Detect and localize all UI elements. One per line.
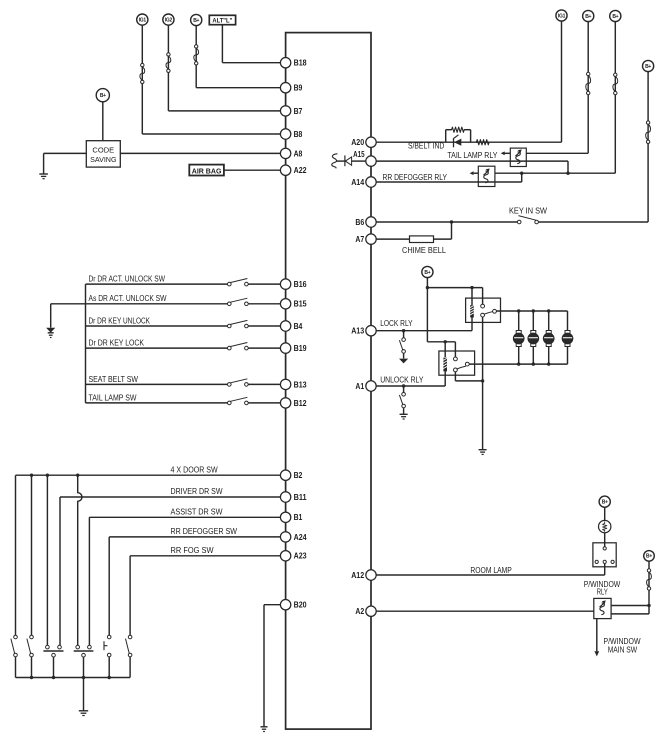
svg-text:ALT"L": ALT"L" [212,18,232,24]
svg-text:A7: A7 [355,235,364,244]
svg-text:As DR ACT. UNLOCK SW: As DR ACT. UNLOCK SW [89,294,167,303]
svg-text:A2: A2 [355,607,364,616]
svg-text:TAIL LAMP RLY: TAIL LAMP RLY [447,151,498,160]
svg-text:B1: B1 [294,513,303,522]
svg-text:B16: B16 [294,280,307,289]
svg-text:A12: A12 [351,571,364,580]
svg-text:B+: B+ [585,14,591,20]
svg-text:ASSIST DR SW: ASSIST DR SW [171,508,223,517]
svg-text:AIR BAG: AIR BAG [192,166,222,175]
svg-text:B15: B15 [294,300,307,309]
svg-text:A24: A24 [294,533,307,542]
svg-text:IG1: IG1 [139,17,147,23]
svg-text:RR DEFOGGER RLY: RR DEFOGGER RLY [383,173,448,182]
svg-text:A1: A1 [355,382,364,391]
svg-text:Dr DR ACT. UNLOCK SW: Dr DR ACT. UNLOCK SW [89,275,166,284]
svg-text:B19: B19 [294,344,307,353]
svg-text:A20: A20 [351,138,364,147]
svg-text:B8: B8 [294,130,303,139]
svg-text:SAVING: SAVING [90,155,117,164]
svg-text:A22: A22 [294,166,307,175]
svg-text:KEY IN SW: KEY IN SW [509,206,547,215]
svg-text:B+: B+ [100,93,106,99]
svg-text:A13: A13 [351,327,364,336]
svg-text:4 X DOOR SW: 4 X DOOR SW [171,465,219,474]
svg-text:B+: B+ [424,270,430,276]
svg-text:B11: B11 [294,493,308,502]
svg-text:B13: B13 [294,380,307,389]
svg-text:ROOM LAMP: ROOM LAMP [470,566,511,575]
svg-text:B+: B+ [646,554,652,560]
svg-text:A15: A15 [353,150,365,159]
svg-text:Dr DR KEY LOCK: Dr DR KEY LOCK [89,339,145,348]
svg-text:DRIVER DR SW: DRIVER DR SW [171,487,223,496]
svg-text:B7: B7 [294,107,303,116]
svg-text:RLY: RLY [597,588,608,597]
svg-text:B4: B4 [294,322,303,331]
svg-text:UNLOCK RLY: UNLOCK RLY [380,375,424,384]
svg-text:IG2: IG2 [165,17,173,23]
svg-text:TAIL LAMP SW: TAIL LAMP SW [89,393,137,402]
svg-text:IG1: IG1 [558,13,566,19]
svg-text:SEAT BELT SW: SEAT BELT SW [89,375,139,384]
svg-text:B20: B20 [294,601,307,610]
svg-text:A14: A14 [351,178,364,187]
svg-text:LOCK RLY: LOCK RLY [380,319,413,328]
svg-text:MAIN SW: MAIN SW [608,646,638,655]
svg-text:A23: A23 [294,552,307,561]
svg-text:RR FOG SW: RR FOG SW [171,546,214,555]
svg-text:CODE: CODE [92,146,114,155]
svg-text:B+: B+ [645,64,651,70]
svg-text:RR DEFOGGER SW: RR DEFOGGER SW [171,527,238,536]
svg-text:B2: B2 [294,471,303,480]
svg-text:B+: B+ [602,500,608,506]
svg-text:B18: B18 [294,59,307,68]
svg-text:B+: B+ [612,14,618,20]
svg-text:B+: B+ [193,18,199,24]
svg-text:CHIME BELL: CHIME BELL [402,246,447,255]
svg-text:Dr DR KEY UNLOCK: Dr DR KEY UNLOCK [89,316,151,325]
svg-text:A8: A8 [294,149,303,158]
svg-text:B12: B12 [294,399,307,408]
svg-text:B9: B9 [294,84,303,93]
svg-text:B6: B6 [355,218,364,227]
svg-text:S/BELT IND: S/BELT IND [408,142,444,151]
